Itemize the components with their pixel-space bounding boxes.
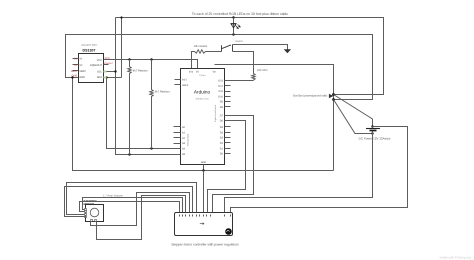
junction dot bus1 xyxy=(332,93,335,96)
svg-text:SQW/OUT: SQW/OUT xyxy=(90,64,102,67)
junction dot SDA xyxy=(105,76,107,78)
svg-text:GND: GND xyxy=(72,75,78,78)
pin 3 VBAT xyxy=(73,70,79,72)
wire net DATA top loop (W_top) xyxy=(116,18,384,95)
LED D1 xyxy=(231,18,241,35)
left pin AREF xyxy=(175,84,181,86)
left pin RST xyxy=(175,79,181,81)
svg-text:DC Power 12V 12Amps: DC Power 12V 12Amps xyxy=(359,136,391,140)
svg-text:D12: D12 xyxy=(218,85,223,88)
wire W_top second drop to SDA corner xyxy=(121,18,123,78)
stepper controller U3 xyxy=(175,213,233,236)
junction dot R2 bottom on A4 line xyxy=(150,147,152,149)
junction dot LED top xyxy=(232,16,234,18)
wire battery plus loop right and down to controller xyxy=(231,127,408,213)
junction dot R1 bottom on A5 line xyxy=(128,153,130,155)
battery BT1 DC supply xyxy=(359,129,391,141)
pin 2 X2 xyxy=(73,64,79,66)
svg-text:D13: D13 xyxy=(218,79,223,82)
wire bus diagonal to battery plus xyxy=(334,95,373,127)
pin 6 SCL xyxy=(104,71,107,73)
Arduino bottom GND pin stub xyxy=(203,165,205,171)
svg-text:To each of 25 controlled RGB L: To each of 25 controlled RGB LEDs on 20 … xyxy=(192,12,288,16)
svg-text:Analog Input: Analog Input xyxy=(187,133,190,146)
svg-text:DS1307 RTC: DS1307 RTC xyxy=(82,44,98,47)
junction dot SCL xyxy=(114,70,116,72)
junction dot battery minus xyxy=(371,132,373,134)
svg-text:1.7 Amp Stepper: 1.7 Amp Stepper xyxy=(103,194,123,197)
svg-text:4k7 Resistor: 4k7 Resistor xyxy=(155,90,170,93)
svg-text:Arduino: Arduino xyxy=(194,90,211,95)
wire SCL pin to vertical xyxy=(104,71,116,73)
Arduino right pins D13..D8 xyxy=(225,81,231,154)
junction dot battery plus xyxy=(371,125,373,127)
svg-text:5V: 5V xyxy=(196,70,199,73)
svg-text:Bus Bar (power/ground rails): Bus Bar (power/ground rails) xyxy=(293,95,327,98)
wire stepper coil 2 to controller xyxy=(80,202,180,213)
svg-text:Stepper motor controller with: Stepper motor controller with power regu… xyxy=(171,243,239,247)
svg-text:220 ohm: 220 ohm xyxy=(257,69,268,72)
wire SDA run down to A4 xyxy=(107,78,174,149)
svg-text:GND: GND xyxy=(201,161,207,164)
Arduino U2 xyxy=(175,69,225,165)
svg-text:made with Fritzing.org: made with Fritzing.org xyxy=(440,256,472,260)
svg-text:SDA: SDA xyxy=(97,76,102,79)
pin 5 SDA xyxy=(104,77,107,79)
svg-text:AREF: AREF xyxy=(182,84,189,87)
svg-text:VBAT: VBAT xyxy=(71,70,78,73)
bus bar arrow xyxy=(329,94,333,98)
wire switch branch to 220 ohm xyxy=(233,52,254,72)
svg-text:VBAT: VBAT xyxy=(79,70,86,73)
wire stepper bottom 2 to controller xyxy=(97,196,186,240)
svg-text:3V3: 3V3 xyxy=(189,70,194,73)
svg-text:GND: GND xyxy=(79,76,85,79)
junction dot rail R2 xyxy=(150,58,152,60)
svg-text:Switch: Switch xyxy=(235,40,243,43)
svg-text:D10: D10 xyxy=(218,95,223,98)
IC U1 DS1307 xyxy=(71,44,114,82)
wire GND drop to bottom rail xyxy=(73,78,334,171)
switch S1 xyxy=(222,40,244,52)
tiny mark inside controller xyxy=(200,223,204,225)
wire GND pin down to controller pin xyxy=(203,171,205,213)
svg-text:Arduino Uno: Arduino Uno xyxy=(195,98,209,101)
resistor R4 220 ohm xyxy=(252,72,255,81)
resistor R1 4k7 (SCL pullup) xyxy=(128,60,131,155)
wire D6 to controller xyxy=(208,121,246,213)
wire stepper coil 1 to controller xyxy=(83,198,183,213)
wire stepper coil 4 to controller xyxy=(65,187,193,217)
junction dot W_top drop2 xyxy=(120,16,122,18)
svg-text:VCC: VCC xyxy=(105,57,110,60)
pin 1 X1 xyxy=(73,58,79,60)
stepper motor M1 xyxy=(84,199,104,222)
junction dot bus2 xyxy=(332,98,335,101)
wire stepper coil 3 to controller xyxy=(67,183,197,215)
wire bus diagonal to battery minus xyxy=(334,100,373,134)
resistor R3 10k with wire to 3V3 xyxy=(192,50,222,69)
junction dot rail R1 xyxy=(128,58,130,60)
svg-text:10k resistor: 10k resistor xyxy=(194,45,208,48)
junction dot GND bottom xyxy=(202,169,204,171)
junction dot LED bottom xyxy=(232,33,234,35)
svg-text:RST: RST xyxy=(182,79,187,82)
wire Vin to bus bar vertical xyxy=(215,65,334,171)
svg-text:4k7 Resistor: 4k7 Resistor xyxy=(133,70,148,73)
wire R4 to D13 xyxy=(231,80,254,82)
wire battery minus down and left to controller xyxy=(225,132,373,213)
svg-text:SCL: SCL xyxy=(97,70,102,73)
wire 5V rail from DS1307 VCC to Arduino 5V pin xyxy=(104,60,198,69)
wire SDA pin to corner xyxy=(104,77,122,79)
svg-text:DS1307: DS1307 xyxy=(83,49,96,53)
wire D7 to controller xyxy=(213,116,254,213)
svg-text:Digital Input/Output: Digital Input/Output xyxy=(214,104,217,122)
wire switch to ground arrow xyxy=(233,45,288,50)
svg-text:D11: D11 xyxy=(219,90,224,93)
logo circle xyxy=(225,228,232,235)
wire stepper bottom 1 to controller xyxy=(91,193,190,226)
wire GND net: chip GND left, up, LED rail right, down to bus xyxy=(66,35,373,100)
Arduino left analog pins A0..A5 xyxy=(174,127,181,155)
svg-text:Power: Power xyxy=(199,74,205,77)
junction dot GND branch xyxy=(71,76,73,78)
resistor R2 4k7 (SDA pullup) xyxy=(150,60,153,149)
ground arrow xyxy=(284,49,291,53)
wire W_top left drop to SCL and A5 xyxy=(116,18,174,155)
svg-text:VCC: VCC xyxy=(97,59,102,62)
